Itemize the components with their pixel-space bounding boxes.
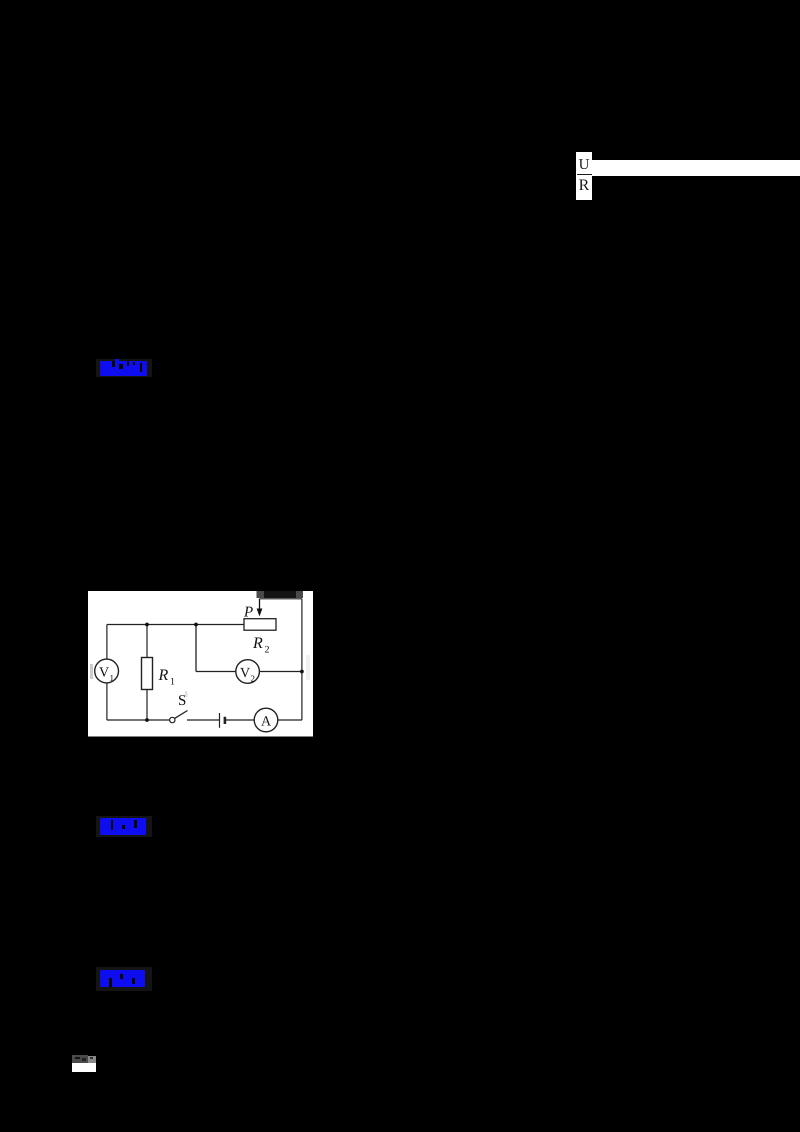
fraction U/R (white opaque box on black) (576, 152, 592, 200)
svg-text:1: 1 (170, 677, 175, 688)
voltmeter V1 (95, 659, 119, 683)
wire top (107, 624, 244, 626)
wire left side (106, 625, 108, 721)
svg-text:R: R (158, 667, 169, 684)
ammeter A (254, 708, 278, 732)
watermark remnant bottom-left white (72, 1063, 96, 1072)
battery long plate (219, 713, 221, 728)
wire R1 branch (146, 625, 148, 721)
blue label 3 (【点评】) (100, 970, 145, 987)
junction node bottom (145, 718, 149, 722)
junction node right (300, 670, 304, 674)
blue label 1 (【答案】) (100, 361, 147, 377)
wire V2 branch vertical (195, 625, 197, 672)
rheostat R2 body (244, 619, 276, 631)
white background of figure (88, 591, 313, 737)
watermark artifact below V2 wire (185, 691, 188, 697)
svg-text:2: 2 (251, 674, 256, 684)
watermark artifact right edge (306, 655, 310, 680)
wire bottom left segment (107, 719, 170, 721)
battery short plate (224, 717, 227, 724)
junction node top-mid (194, 623, 198, 627)
wire bottom right segments (225, 719, 254, 721)
white band (opaque line remnant) (592, 160, 800, 176)
fraction numerator U (576, 157, 592, 173)
resistor R1 body (142, 658, 153, 690)
blue label 2 halo (96, 816, 152, 837)
watermark artifact left of V1 (90, 664, 93, 679)
voltmeter V2 (236, 660, 260, 684)
fraction bar (577, 174, 593, 175)
watermark remnant bottom-left gray (72, 1055, 88, 1063)
svg-text:R: R (252, 635, 263, 652)
svg-text:S: S (178, 693, 186, 709)
svg-text:1: 1 (110, 673, 115, 683)
blue label 2 (【解析】) (100, 818, 146, 835)
slider top black bar (257, 591, 304, 598)
slider stem and arrow P (259, 599, 261, 610)
switch S circle (170, 717, 175, 722)
wire bottom mid segment (187, 719, 220, 721)
switch lever (175, 711, 188, 719)
fraction denominator R (576, 177, 592, 194)
blue label 3 halo (96, 967, 152, 991)
wire V2 branch horizontal (196, 671, 302, 673)
svg-text:2: 2 (265, 645, 270, 656)
blue label 1 halo (96, 359, 152, 377)
svg-text:V: V (240, 666, 250, 681)
circuit figure box (88, 591, 313, 737)
junction node top-left (145, 623, 149, 627)
svg-text:V: V (99, 666, 109, 681)
wire right side (301, 599, 303, 720)
wire under bar (260, 598, 303, 600)
svg-text:A: A (261, 715, 272, 730)
